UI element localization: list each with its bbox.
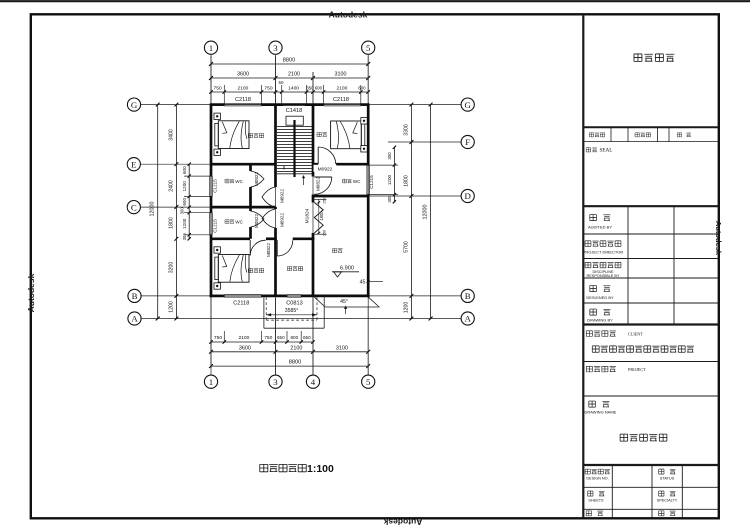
- svg-text:Autodesk: Autodesk: [26, 273, 36, 312]
- grid line 1 vertical: [210, 55, 212, 375]
- svg-text:300: 300: [182, 233, 187, 241]
- door label M0922 bedroom2: [314, 165, 337, 172]
- svg-text:1400: 1400: [288, 86, 299, 92]
- title block row cell line d: [668, 127, 670, 141]
- signature table row line 3: [583, 277, 718, 279]
- column marker bed2 bottom: [361, 146, 367, 152]
- svg-text:Autodesk: Autodesk: [383, 517, 422, 527]
- grid line F horizontal: [388, 141, 461, 143]
- title block seal section bottom thick line: [583, 205, 718, 207]
- svg-text:A: A: [465, 314, 472, 324]
- top extension line grid 1: [210, 56, 212, 103]
- window C0813 bottom symbol: [287, 294, 301, 296]
- right sub dim line: [393, 147, 395, 202]
- title block client section top thick line: [583, 323, 718, 325]
- column marker bed2 top: [361, 118, 367, 124]
- svg-text:2100: 2100: [288, 72, 300, 78]
- stair window C1418 rect: [286, 116, 303, 125]
- svg-text:M0822: M0822: [266, 243, 271, 257]
- bottom overall dim line 8800: [211, 365, 368, 367]
- bottom table 日期: [586, 511, 591, 516]
- room label 主卧WC upper: [225, 179, 229, 183]
- grid line A horizontal: [141, 318, 461, 320]
- title block row cell line b: [627, 127, 629, 141]
- grid bubble D right: [461, 189, 474, 202]
- bed bedroom top-right: [331, 121, 362, 149]
- svg-text:2400: 2400: [168, 180, 174, 192]
- top window extension line 6: [360, 85, 362, 103]
- svg-text:STATUS: STATUS: [660, 477, 675, 481]
- bottom sub dim line: [211, 341, 313, 343]
- svg-text:M0922: M0922: [279, 189, 284, 203]
- grid bubble G left: [127, 98, 140, 111]
- svg-text:PROJECT DIRECTOR: PROJECT DIRECTOR: [583, 250, 624, 255]
- svg-text:C1418: C1418: [286, 108, 302, 114]
- svg-text:M0822: M0822: [254, 214, 259, 228]
- svg-text:600: 600: [182, 198, 187, 206]
- balcony hidden edge dashed left: [265, 297, 267, 320]
- top window extension line 2: [261, 85, 263, 103]
- title block text 盖章: [586, 148, 591, 152]
- window C2118 top right symbol: [324, 102, 361, 104]
- svg-text:C2118: C2118: [333, 97, 349, 103]
- grid bubble C left: [127, 201, 140, 214]
- svg-text:SPECIALTY: SPECIALTY: [657, 499, 678, 503]
- grid line G horizontal: [141, 104, 461, 106]
- svg-text:1800: 1800: [319, 211, 324, 221]
- svg-text:600: 600: [315, 86, 323, 91]
- top extension line grid 4: [312, 72, 314, 103]
- svg-text:45: 45: [360, 279, 366, 285]
- exterior wall top G segment 2: [262, 103, 324, 106]
- svg-text:2100: 2100: [237, 86, 248, 92]
- top window extension line 5: [323, 85, 325, 103]
- bottom window extension line 4: [300, 331, 302, 343]
- grid bubble 3 top: [269, 41, 282, 54]
- title block left border: [582, 14, 584, 518]
- svg-text:WC: WC: [353, 179, 361, 184]
- right window extension line 2: [368, 194, 398, 196]
- room label 主卧室 top-left: [248, 134, 252, 138]
- terrace eave chamfer left: [314, 297, 325, 307]
- svg-text:WC: WC: [235, 220, 243, 225]
- grid bubble 5 bottom: [362, 375, 375, 388]
- svg-text:150: 150: [323, 198, 327, 204]
- svg-text:8800: 8800: [283, 58, 295, 64]
- grid line 4 vertical: [312, 72, 314, 375]
- svg-text:CLIENT: CLIENT: [628, 332, 643, 337]
- signature table row line 1: [583, 233, 718, 235]
- grid line D horizontal: [368, 195, 461, 197]
- room label 卧室 top-right: [317, 133, 321, 137]
- svg-text:1200: 1200: [387, 174, 392, 185]
- title block row cell line c: [657, 127, 659, 141]
- svg-text:600: 600: [182, 166, 187, 174]
- interior wall C axis: [211, 206, 276, 209]
- door M1824 dim ticks: [314, 198, 326, 200]
- room label 露台: [333, 249, 337, 253]
- interior wall axis3 segment 2: [274, 207, 277, 209]
- left window extension line 3: [184, 212, 211, 214]
- door M0922 corridor lower lens: [262, 209, 276, 228]
- bottom table row line 2: [583, 508, 718, 510]
- svg-text:G: G: [131, 100, 138, 110]
- interior wall axis3 segment 4: [274, 239, 277, 296]
- interior wall axis4 segment 3: [312, 233, 315, 296]
- signature table col line 1: [627, 206, 629, 324]
- page top scan edge line: [0, 0, 750, 2]
- title block row 正式图/条件图/版次 bottom line: [583, 141, 718, 143]
- svg-text:3100: 3100: [335, 72, 347, 78]
- exterior wall right axis5 segment 1: [367, 105, 370, 166]
- signature row 制图: [590, 309, 597, 315]
- bottom table 专业 SPECIALTY: [659, 491, 664, 496]
- svg-text:150: 150: [323, 230, 327, 236]
- grid bubble A right: [461, 312, 474, 325]
- title block row cell line a: [610, 127, 612, 141]
- floor plan caption 三层平面图1:100: [260, 464, 268, 471]
- svg-text:8800: 8800: [289, 359, 301, 365]
- svg-text:300: 300: [179, 207, 184, 215]
- exterior wall top G segment 1: [210, 103, 225, 106]
- left segment dim line: [175, 105, 177, 319]
- right window extension line 1: [368, 164, 398, 166]
- svg-text:650: 650: [303, 335, 311, 340]
- bottom table 张数: [588, 491, 593, 496]
- svg-text:3200: 3200: [168, 262, 174, 274]
- grid bubble 4 bottom: [306, 375, 319, 388]
- svg-text:5: 5: [366, 377, 371, 387]
- svg-text:A: A: [131, 314, 138, 324]
- svg-text:DESIGNED BY: DESIGNED BY: [586, 295, 614, 300]
- svg-text:SEAL: SEAL: [600, 148, 613, 154]
- svg-text:750: 750: [264, 335, 272, 341]
- bottom extension grid 5: [367, 307, 369, 375]
- title block text 图名: [589, 401, 596, 407]
- window C1215 left upper symbol: [209, 176, 211, 196]
- svg-text:3600: 3600: [237, 72, 249, 78]
- top window extension line 3: [281, 85, 283, 103]
- svg-text:M0922: M0922: [279, 213, 284, 227]
- title block bottom table top thick line: [583, 464, 718, 466]
- svg-text:45°: 45°: [340, 299, 348, 305]
- interior wall y238 segment 3: [293, 237, 315, 240]
- signature row 设计: [590, 286, 597, 292]
- svg-text:1: 1: [209, 377, 213, 387]
- interior wall y238 segment 2: [266, 237, 277, 240]
- window C2118 top left symbol: [224, 102, 261, 104]
- svg-text:WC: WC: [235, 179, 243, 184]
- title block text 施工单位 CLIENT: [586, 331, 592, 337]
- title block text 版 次: [677, 133, 681, 137]
- svg-text:B: B: [132, 291, 138, 301]
- right overall dim line 12000: [430, 105, 432, 319]
- door M0822 WC1 lens: [251, 171, 265, 187]
- top extension line grid 5: [367, 56, 369, 103]
- grid bubble A left: [128, 312, 141, 325]
- svg-text:E: E: [131, 159, 136, 169]
- exterior wall top G segment 3: [361, 103, 370, 106]
- door M0822 WC2 lens: [251, 211, 265, 227]
- left window extension line 1: [184, 175, 211, 177]
- exterior wall left axis1 segment 2: [210, 197, 213, 213]
- svg-text:D: D: [465, 191, 471, 201]
- svg-text:M0822: M0822: [254, 172, 259, 186]
- grid line 3 vertical: [275, 55, 277, 375]
- window C2118 bottom symbol: [224, 294, 261, 296]
- svg-text:800: 800: [290, 335, 298, 340]
- svg-text:DESIGN NO.: DESIGN NO.: [586, 477, 608, 481]
- svg-text:AUDITED BY: AUDITED BY: [588, 225, 612, 230]
- door M0822 WC public leaf and arc: [314, 176, 332, 178]
- grid bubble 3 bottom: [269, 375, 282, 388]
- svg-text:3400: 3400: [168, 129, 174, 141]
- signature row 工程负责人: [585, 241, 591, 246]
- svg-text:G: G: [465, 100, 472, 110]
- grid bubble 5 top: [362, 41, 375, 54]
- svg-text:1: 1: [209, 43, 213, 53]
- svg-text:3585°: 3585°: [285, 308, 299, 314]
- svg-text:C2118: C2118: [235, 97, 251, 103]
- stair center stringer: [293, 120, 295, 177]
- top window extension line 4: [306, 85, 308, 103]
- title block text 正式图: [589, 133, 593, 137]
- title block drawing name section top line: [583, 395, 718, 397]
- terrace eave chamfer right: [368, 297, 379, 307]
- svg-text:Autodesk: Autodesk: [329, 10, 368, 20]
- interior wall y238 segment 1: [211, 237, 250, 240]
- bottom extension grid 1: [210, 298, 212, 368]
- svg-text:5700: 5700: [403, 241, 409, 253]
- terrace eave slope arrow: [345, 307, 347, 315]
- left window extension line 4: [184, 234, 211, 236]
- svg-text:1800: 1800: [403, 175, 409, 187]
- exterior wall left axis1 segment 1: [210, 105, 213, 177]
- svg-text:3: 3: [273, 377, 278, 387]
- exterior wall bottom B segment 3: [301, 295, 369, 298]
- window C1215 left lower symbol: [209, 213, 211, 235]
- title block project title box line: [583, 126, 718, 128]
- interior wall axis4 segment 2: [312, 195, 315, 203]
- left sub dim line: [188, 164, 190, 239]
- signature table row line 2: [583, 258, 718, 260]
- svg-text:1200: 1200: [182, 218, 187, 229]
- svg-text:C1215: C1215: [213, 219, 218, 233]
- title block project title text 轻钢别墅: [634, 54, 642, 61]
- svg-text:DISCIPLINE: DISCIPLINE: [592, 270, 614, 274]
- svg-text:C2118: C2118: [233, 301, 249, 307]
- balcony hidden edge dashed bottom: [266, 319, 317, 321]
- bottom segment dim line: [211, 351, 368, 353]
- bottom table col line 3: [681, 465, 683, 518]
- title block client company name: [592, 346, 599, 352]
- grid line C horizontal: [141, 206, 211, 208]
- svg-text:300: 300: [387, 195, 392, 203]
- svg-text:6.900: 6.900: [340, 266, 354, 272]
- svg-text:C: C: [131, 202, 137, 212]
- room label 主卧WC lower: [225, 220, 229, 224]
- exterior wall bottom B segment 2: [262, 295, 288, 298]
- bottom table 阶段 STATUS: [659, 469, 664, 474]
- signature table row line 4: [583, 302, 718, 304]
- svg-text:750: 750: [214, 335, 222, 341]
- interior wall D axis: [313, 195, 368, 198]
- grid bubble 1 top: [204, 41, 217, 54]
- column marker bed1 bottom: [214, 149, 220, 155]
- grid bubble B right: [461, 289, 474, 302]
- grid bubble 1 bottom: [204, 375, 217, 388]
- stair treads: [277, 126, 312, 128]
- svg-text:Autodesk: Autodesk: [714, 221, 723, 256]
- grid bubble E left: [127, 158, 140, 171]
- svg-text:4: 4: [311, 377, 316, 387]
- terrace eave bottom edge: [325, 306, 379, 308]
- grid bubble B left: [128, 289, 141, 302]
- top segment dim line: [211, 77, 368, 79]
- svg-text:B: B: [465, 291, 471, 301]
- exterior wall bottom B segment 1: [210, 295, 225, 298]
- svg-text:2100: 2100: [238, 335, 249, 341]
- svg-text:2100: 2100: [290, 345, 302, 351]
- top overall dim line 8800: [211, 63, 368, 65]
- bottom extension grid 4: [312, 298, 314, 375]
- svg-text:600: 600: [358, 86, 366, 91]
- window label C1418: [283, 106, 305, 114]
- svg-text:300: 300: [387, 152, 392, 160]
- grid line B horizontal: [141, 295, 461, 297]
- door M1824 bifold zigzag: [314, 202, 323, 233]
- svg-text:1800: 1800: [168, 217, 174, 229]
- svg-text:C0813: C0813: [286, 301, 302, 307]
- svg-text:M0822: M0822: [316, 177, 321, 191]
- svg-text:750: 750: [264, 86, 272, 92]
- left window extension line 2: [184, 196, 211, 198]
- top window extension line 1: [223, 85, 225, 103]
- svg-text:M0922: M0922: [318, 166, 333, 172]
- terrace wall dim 45: [368, 281, 383, 283]
- svg-text:50: 50: [279, 80, 284, 85]
- grid bubble F right: [461, 135, 474, 148]
- interior wall axis3 segment 1: [274, 105, 277, 187]
- bottom window extension line 1: [223, 331, 225, 343]
- svg-text:3600: 3600: [239, 345, 251, 351]
- svg-text:PROJECT: PROJECT: [628, 367, 646, 372]
- svg-text:12000: 12000: [150, 202, 156, 217]
- svg-text:DRAWING NAME: DRAWING NAME: [585, 410, 617, 415]
- balcony outline solid: [263, 297, 265, 328]
- svg-text:M1824: M1824: [305, 208, 311, 223]
- interior wall axis4 segment 1: [312, 105, 315, 177]
- title block client section bottom line: [583, 361, 718, 363]
- svg-text:1200: 1200: [403, 302, 409, 314]
- bottom window extension line 2: [261, 331, 263, 343]
- svg-text:12000: 12000: [423, 205, 429, 220]
- stair bottom edge: [277, 173, 312, 175]
- left overall dim line 12000: [157, 105, 159, 319]
- right segment dim line: [410, 105, 412, 319]
- grid line E horizontal: [141, 163, 211, 165]
- svg-text:3100: 3100: [336, 345, 348, 351]
- interior wall axis3 segment 3: [274, 228, 277, 239]
- stair direction arrow: [303, 176, 305, 185]
- room label 公卫WC: [342, 179, 346, 183]
- bottom table col line 2: [651, 465, 653, 518]
- svg-text:C1215: C1215: [213, 179, 218, 193]
- interior wall E axis: [211, 163, 276, 166]
- interior wall WC partition x250: [249, 164, 252, 171]
- bed master bedroom bottom-left: [218, 255, 249, 283]
- svg-text:DRAWING BY: DRAWING BY: [587, 318, 613, 323]
- title block text 条件图: [635, 133, 639, 137]
- bottom table col line 1: [611, 465, 613, 518]
- svg-text:5: 5: [366, 43, 371, 53]
- column marker bed3 bottom: [214, 283, 220, 289]
- room label 衣帽间: [287, 267, 291, 271]
- column marker bed1 top: [214, 113, 220, 119]
- svg-text:1:100: 1:100: [307, 463, 334, 475]
- svg-text:750: 750: [214, 86, 222, 92]
- title block drawing name 基础平面图: [620, 434, 628, 441]
- bottom table row line 1: [583, 486, 718, 488]
- exterior wall right axis5 segment 2: [367, 195, 370, 298]
- svg-text:SHEETS: SHEETS: [588, 499, 604, 503]
- svg-text:3300: 3300: [403, 124, 409, 136]
- svg-text:1200: 1200: [182, 181, 187, 192]
- bottom table 图号: [659, 511, 664, 516]
- bed master bedroom top-left: [218, 121, 249, 149]
- room label 主卧室 bottom-left: [248, 269, 252, 273]
- grid bubble G right: [461, 98, 474, 111]
- signature table col line 2: [673, 206, 675, 324]
- interior wall bedroom2 bottom y164: [313, 163, 318, 166]
- column marker bed3 top: [214, 247, 220, 253]
- title block text 工程名称 PROJECT: [586, 366, 592, 372]
- bottom window extension line 3: [286, 331, 288, 343]
- top sub dim line: [211, 91, 368, 93]
- svg-text:F: F: [465, 137, 470, 147]
- signature row 审核: [590, 215, 597, 221]
- svg-text:2100: 2100: [336, 86, 347, 92]
- door M0822 bedroom3 leaf and arc: [249, 240, 251, 256]
- grid line 5 vertical: [367, 55, 369, 375]
- window C1215 right symbol: [366, 165, 368, 195]
- door M0922 corridor upper lens: [262, 187, 276, 207]
- top extension line grid 3: [275, 56, 277, 103]
- bottom table 设计编号 DESIGN NO: [585, 469, 590, 474]
- door M0922 bedroom2 leaf and arc: [317, 147, 319, 164]
- svg-text:1200: 1200: [168, 301, 174, 313]
- svg-text:RESPONSIBLE BY: RESPONSIBLE BY: [587, 274, 620, 278]
- door M0822 cloakroom leaf and arc: [276, 240, 278, 256]
- signature row 专业负责人: [585, 262, 591, 267]
- balcony hidden edge dashed right: [316, 297, 318, 320]
- svg-text:650: 650: [277, 335, 285, 340]
- exterior wall left axis1 segment 3: [210, 235, 213, 297]
- bottom extension grid 3: [275, 298, 277, 375]
- svg-text:3: 3: [273, 43, 278, 53]
